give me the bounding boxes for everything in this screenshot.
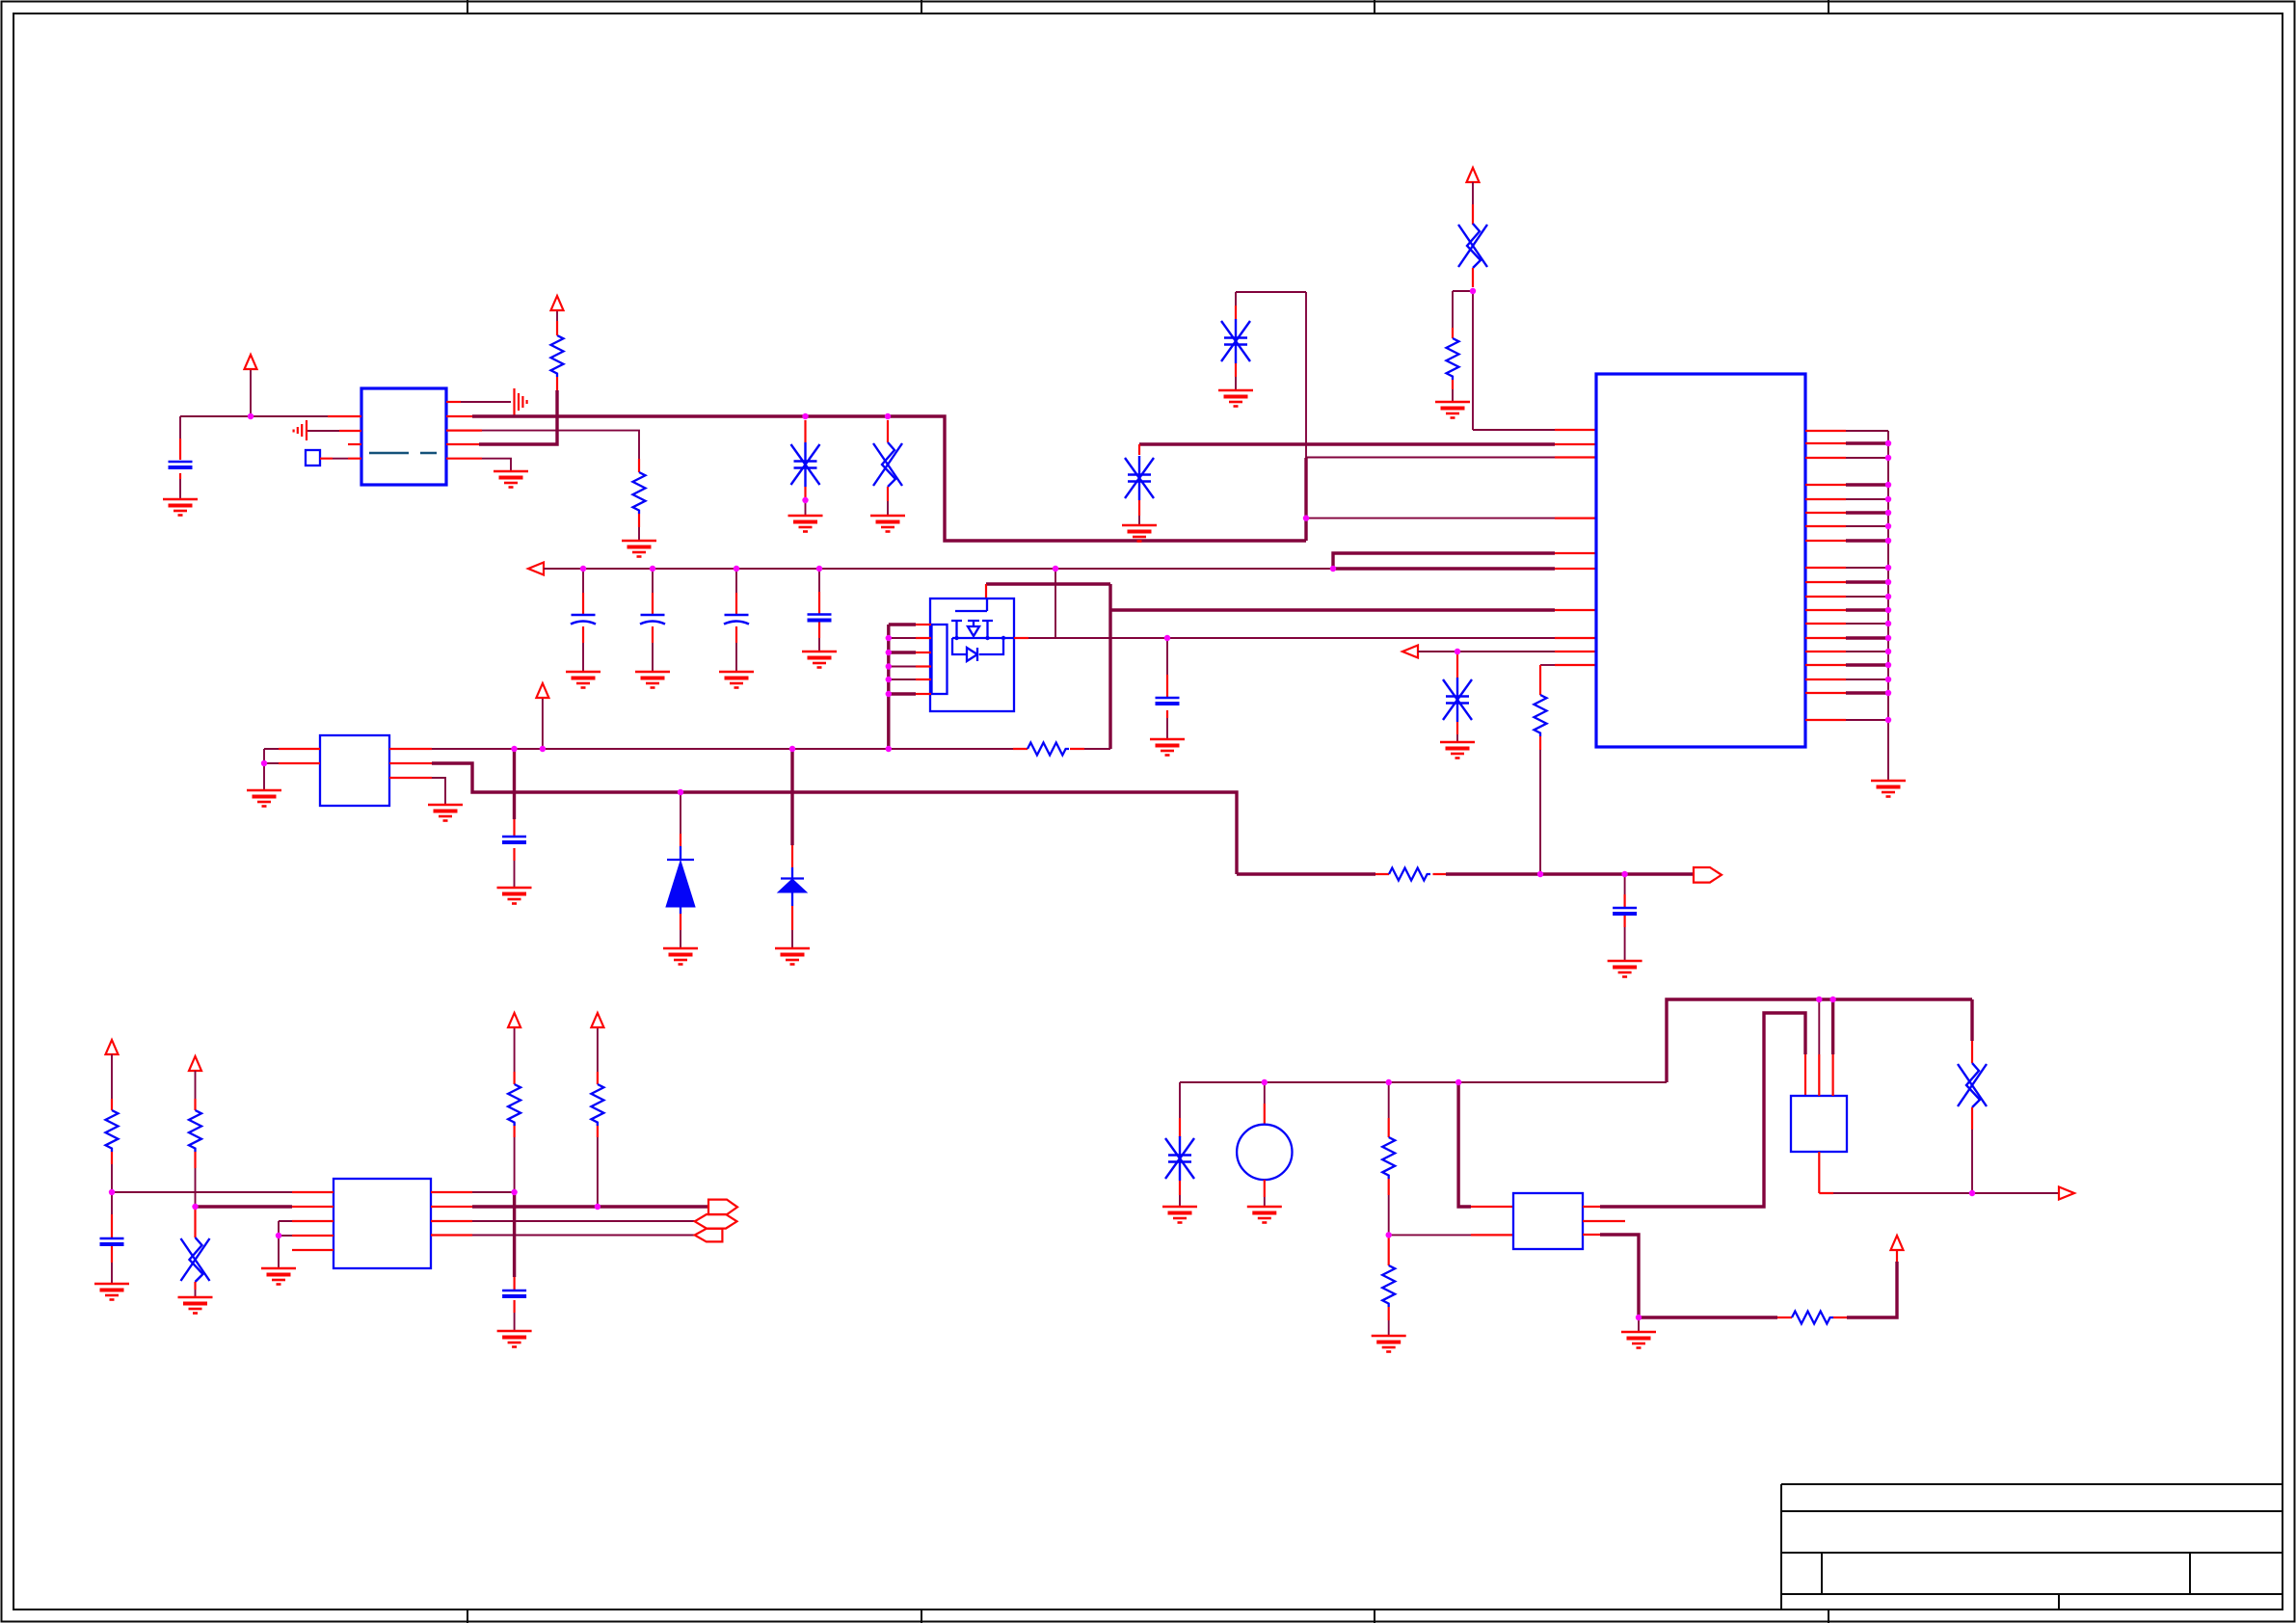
junction bus TVS1 <box>802 413 808 419</box>
wire U6 right pin 4 <box>1805 484 1846 486</box>
junction bus X1 <box>885 413 891 419</box>
wire TVS5 ground <box>1179 1181 1181 1195</box>
capacitor C9 <box>502 1290 526 1296</box>
wire U6 right pin 1 <box>1805 430 1846 432</box>
border tick marks <box>467 0 1829 1623</box>
ground GND-U4 <box>1621 1332 1656 1348</box>
wire oscillator stem <box>1264 1082 1266 1104</box>
IC U2 <box>320 735 389 806</box>
wire R11 riser <box>597 1027 599 1207</box>
wire U6 right pin 3 <box>1805 457 1846 459</box>
wire Q1 pin1 <box>889 623 916 625</box>
title block <box>1781 1484 2283 1610</box>
resistor R1 <box>551 335 564 377</box>
junction rail C4 <box>734 566 739 572</box>
wire X3 ground <box>194 1282 196 1290</box>
wire R9 to node <box>194 1152 196 1168</box>
junction net777 C7 <box>511 746 517 752</box>
crystal symbol X1 <box>873 442 902 487</box>
junction net1367 <box>1636 1315 1642 1320</box>
U1 internal label lines <box>369 452 437 455</box>
ground GND-TVS3 <box>1218 390 1253 407</box>
wire U6 right pin 15 <box>1805 651 1846 652</box>
wire R2 to ground <box>638 514 640 527</box>
wire X1 to ground <box>887 487 889 501</box>
wire cap stem <box>582 569 584 672</box>
ground GND-C9 <box>497 1331 532 1347</box>
power VCC P2 <box>551 296 564 310</box>
wire cap C5 stem <box>818 569 820 652</box>
wire R6 to gate riser <box>1084 748 1110 750</box>
junction U6 bus pin18 <box>1885 690 1891 696</box>
power VCC P3 <box>536 683 548 698</box>
resistor R9 <box>189 1110 201 1152</box>
wire U1 pin14 to R2 <box>446 430 482 432</box>
wire U1 pin13 to R1 pullup <box>446 443 479 445</box>
Q1 MOSFET symbol <box>955 599 987 611</box>
junction U3 gnd pins <box>276 1233 281 1238</box>
junction rail C3 <box>650 566 655 572</box>
junction Q1 pin5 <box>886 677 892 682</box>
wire TVS1 gnd stub <box>805 500 807 516</box>
capacitor C10 <box>1613 908 1637 914</box>
resistor R3 <box>1447 338 1459 380</box>
junction net907 C10 <box>1621 871 1627 877</box>
wire Q1 pin4 <box>889 666 916 668</box>
power VCC P4 <box>1467 168 1480 182</box>
wire D1 vertical <box>680 792 681 834</box>
wire divider to U4 pin2 <box>1389 1234 1471 1236</box>
power VCC P9 <box>1891 1236 1904 1250</box>
wire TVS2 ground <box>1456 722 1458 734</box>
wire R13 ground <box>1388 1307 1390 1320</box>
resistor R8 <box>106 1110 119 1152</box>
capacitor C1 <box>169 462 193 467</box>
wire net1367 to R14 <box>1639 1316 1777 1318</box>
resistor R10 <box>508 1084 521 1126</box>
ground GND-C7 <box>497 888 532 904</box>
IC U4 <box>1513 1193 1583 1249</box>
IC U6 <box>1596 374 1805 747</box>
wire Q1 pin5 <box>889 678 916 680</box>
wire net1252 to U3 <box>196 1205 293 1208</box>
wire TVS4 to U6 thick <box>1139 442 1555 445</box>
wire P5 to R8 <box>111 1054 113 1099</box>
ground GND-D1 <box>663 948 698 965</box>
wire D1 ground <box>680 914 681 930</box>
wire to C1 <box>179 416 181 499</box>
ground GND-U3L <box>261 1268 296 1285</box>
Q1 pin bracket <box>932 625 948 694</box>
capacitor C2 <box>571 615 596 625</box>
diode D2 <box>781 867 804 879</box>
wire R14 to VCC <box>1847 1262 1897 1317</box>
wire rail to Q1 drain <box>1055 569 1056 638</box>
wire net1237 to U3 <box>112 1191 292 1193</box>
wire R10 riser <box>514 1027 516 1192</box>
ground GND-X3 <box>178 1297 213 1314</box>
resistor R14 <box>1792 1312 1833 1324</box>
wire R12 to node <box>1388 1179 1390 1195</box>
wire node to U6 pin1 <box>1473 291 1555 430</box>
junction net1123 osc <box>1262 1079 1268 1085</box>
capacitor C4 <box>724 615 749 625</box>
wire riser lower thick <box>1304 458 1307 541</box>
net arrow left 3V3 rail <box>528 563 544 575</box>
crystal symbol X4 <box>1958 1063 1987 1107</box>
wire C6 stem <box>1166 638 1168 739</box>
junction U6 bus pin17 <box>1885 677 1891 682</box>
wire U5 pin2 top <box>1818 999 1820 1054</box>
wire U1 pin16 to chassis <box>446 401 461 403</box>
ground GND-C4 <box>719 672 754 688</box>
wire Q1 pin6 <box>889 692 916 695</box>
junction TVS1 ground <box>802 497 808 503</box>
junction U6 bus pin19 <box>1885 717 1891 723</box>
wire rail to U6 pins <box>1333 553 1555 569</box>
ground GND-Y1 <box>1247 1207 1282 1223</box>
junction divider <box>1386 1232 1392 1237</box>
wire to TVS1 <box>804 420 806 442</box>
wire U5 bottom pin to out <box>1819 1152 1833 1193</box>
wire Q1 gate feed <box>986 584 1110 749</box>
wire pinD <box>1306 518 1555 519</box>
junction Q1 pin6 <box>886 691 892 697</box>
wire to X1 <box>887 420 889 442</box>
junction net1237 <box>109 1189 115 1195</box>
junction U6 bus pin4 <box>1885 482 1891 488</box>
wire TVS5 stem <box>1179 1082 1181 1118</box>
junction U6 bus pin8 <box>1885 538 1891 544</box>
chassis ground left <box>294 420 307 440</box>
connector J1 small box <box>306 450 320 466</box>
wire U3 right pin4 <box>431 1234 472 1236</box>
wire pin1 down to C9 <box>513 1192 516 1277</box>
wire TVS1 to ground <box>804 487 806 498</box>
ground GND-C10 <box>1608 961 1642 977</box>
wire U6 right pin 18 <box>1805 692 1846 694</box>
capacitor C8 <box>100 1238 124 1244</box>
resistor R6 <box>1028 743 1069 756</box>
net arrow right OUT <box>2059 1187 2074 1200</box>
junction riser pinD <box>1303 515 1309 520</box>
junction pin1 R10 <box>511 1189 517 1195</box>
ground GND-U6 <box>1871 781 1906 797</box>
wire node to R13 <box>1388 1235 1390 1265</box>
ground GND-C3 <box>635 672 670 688</box>
wire Q1 drain out <box>1014 637 1028 639</box>
wire gnd stub <box>1638 1317 1640 1332</box>
ground GND-C1 <box>163 499 198 516</box>
junction net1252 <box>192 1204 198 1210</box>
wire J1 to U1 pin5 <box>320 458 361 460</box>
wire net907 <box>1237 872 1375 875</box>
wire node to C8 <box>111 1192 113 1214</box>
wire U6 right pin 13 <box>1805 623 1846 625</box>
wire out to arrow <box>1972 1192 2059 1194</box>
wire cap stem <box>735 569 737 672</box>
junction pin2 R11 <box>595 1204 601 1210</box>
crystal symbol X3 <box>181 1237 210 1282</box>
junction U6 bus pin13 <box>1885 621 1891 626</box>
ground GND-TVS2 <box>1440 742 1475 758</box>
wire U6 right pin 17 <box>1805 678 1846 680</box>
wire U1 pin12 to ground <box>446 458 482 460</box>
wire D2 ground <box>791 906 793 930</box>
resistor R7 <box>1389 868 1430 881</box>
junction Q1 pin4 <box>886 663 892 669</box>
transistor Q1 outer box <box>930 599 1014 711</box>
wire C10 stem <box>1624 874 1626 961</box>
wire thick bus U1 pin15 <box>446 415 472 417</box>
IC U3 <box>334 1179 431 1268</box>
wire bus to X4 <box>1970 999 1973 1041</box>
wire gate net to U6 <box>1110 608 1555 611</box>
wire chassis to U1 pin3 <box>307 430 339 432</box>
junction net777 Q1 <box>886 746 892 752</box>
wire R12 chain <box>1388 1082 1390 1118</box>
wire VCC stem <box>250 369 252 416</box>
wire riser to U6 pins <box>1306 292 1555 458</box>
junction U6 bus pin3 <box>1885 455 1891 461</box>
oscillator Y1 circle <box>1237 1125 1292 1180</box>
wire net907 east <box>1446 872 1694 875</box>
crystal symbol X2 <box>1458 224 1487 268</box>
ground GND-C5 <box>802 652 837 668</box>
junction U6 bus pin16 <box>1885 662 1891 668</box>
wire net1123 <box>1180 1081 1667 1083</box>
junction net1123 U4 <box>1455 1079 1461 1085</box>
wire TVS2 stem <box>1456 652 1458 678</box>
ground GND-U2R <box>428 805 463 821</box>
capacitor C3 <box>640 615 665 625</box>
net arrow left AVDD <box>1402 646 1418 658</box>
junction AVDD TVS <box>1455 649 1460 654</box>
wire U6 right pin 7 <box>1805 525 1846 527</box>
junction U6 bus pin11 <box>1885 594 1891 599</box>
junction net822 D1 <box>678 789 683 795</box>
resistor R13 <box>1382 1265 1395 1307</box>
resistor R6 leads <box>1013 748 1084 750</box>
wire R1 to VCC <box>556 321 558 335</box>
wire TVS3 ground <box>1235 363 1237 377</box>
wire X2 to node <box>1472 268 1474 287</box>
ground GND-C8 <box>94 1284 129 1300</box>
junction U6 bus pin2 <box>1885 440 1891 446</box>
capacitor C6 <box>1156 698 1180 704</box>
chassis ground right <box>515 388 527 415</box>
wire U6 right pin 5 <box>1805 498 1846 500</box>
wire VCC net to U1 pin2 <box>180 415 328 417</box>
resistor R12 <box>1382 1137 1395 1179</box>
junction U6 bus pin6 <box>1885 510 1891 516</box>
junction net1123 R12 <box>1386 1079 1392 1085</box>
wire U3 right pin1 <box>431 1191 472 1193</box>
wire U6 right bus <box>1887 431 1889 781</box>
wire U3 right pin3 <box>431 1220 472 1222</box>
ground GND-R2 <box>622 541 656 557</box>
port flag RX bidir <box>695 1214 737 1229</box>
power VCC P7 <box>508 1013 521 1027</box>
wire U3 left pins 3,4 <box>292 1221 334 1236</box>
junction bus U5b <box>1829 997 1835 1002</box>
wire VCC stem <box>542 698 544 749</box>
ground GND-R13 <box>1372 1336 1406 1352</box>
wire drain net <box>1028 637 1555 639</box>
junction rail C5 <box>816 566 822 572</box>
wire node to R3 <box>1453 291 1473 328</box>
ground GND-TVS4 <box>1122 525 1157 542</box>
wire U6 right pin 9 <box>1805 567 1846 569</box>
wire C7 stem <box>513 749 516 819</box>
wire R5 down to net907 <box>1539 736 1541 750</box>
wire D2 vertical <box>790 749 793 845</box>
junction rail drain <box>1053 566 1058 572</box>
ground GND-U1 <box>494 471 528 488</box>
diode D1 <box>667 846 694 861</box>
ground GND-C6 <box>1150 739 1185 756</box>
resistor R11 <box>591 1084 603 1126</box>
power VCC P8 <box>591 1013 603 1027</box>
power VCC P6 <box>189 1056 201 1071</box>
wire U6 right pin 8 <box>1805 540 1846 542</box>
transient suppressor TVS3 <box>1221 319 1250 363</box>
ground GND-TVS5 <box>1162 1207 1197 1223</box>
wire P6 to R9 <box>195 1071 197 1099</box>
wire U6 right pin 2 <box>1805 442 1846 444</box>
wire U6 right pin 14 <box>1805 637 1846 639</box>
junction rail U6 feed <box>1330 566 1336 572</box>
junction Q1 pin2 <box>886 635 892 641</box>
wire VCC to X2 <box>1472 182 1474 204</box>
wire U5 pin3 top <box>1831 999 1834 1054</box>
wire U6 right pin 6 <box>1805 512 1846 514</box>
wire U6 right pin 12 <box>1805 609 1846 611</box>
resistor R5 <box>1535 695 1547 736</box>
power VCC P1 <box>245 355 257 369</box>
wire C9 ground <box>514 1313 516 1331</box>
wire R8 to node <box>111 1152 113 1164</box>
junction net907 R5 <box>1537 871 1543 877</box>
wire U3 right pin2 <box>431 1206 472 1208</box>
wire U2 left pins to ground <box>279 749 320 763</box>
wire Q1 pin2 <box>889 637 916 639</box>
junction VCC node <box>248 413 254 419</box>
wire U6 right pin 10 <box>1805 581 1846 583</box>
junction U6 bus pin15 <box>1885 649 1891 654</box>
port flag TX right <box>708 1200 737 1215</box>
wire U6 right pin 16 <box>1805 664 1846 666</box>
junction U6 bus pin9 <box>1885 565 1891 571</box>
wire Q1 pin3 <box>889 651 916 653</box>
junction net777 VCC <box>540 746 546 752</box>
junction net777 D2 <box>789 746 795 752</box>
wire U2 pin3R to ground <box>389 777 432 779</box>
ground GND-R3 <box>1435 402 1470 418</box>
wire U4 pin1R to U5 <box>1583 1206 1600 1208</box>
junction U6 bus pin7 <box>1885 523 1891 529</box>
capacitor C7 <box>502 837 526 842</box>
wire 3V3 rail <box>544 568 1333 570</box>
wire TVS3 top branch <box>1236 292 1306 306</box>
wire C8 ground <box>111 1263 113 1284</box>
transient suppressor TVS4 <box>1125 456 1154 500</box>
transient suppressor TVS1 <box>791 442 820 487</box>
wire U4 pin2R no-connect <box>1583 1220 1625 1222</box>
wire net777 <box>389 748 432 750</box>
ground GND-TVS1 <box>788 516 823 532</box>
wire TVS4 ground <box>1138 500 1140 516</box>
wire node to X3 <box>194 1207 196 1237</box>
wire net822 <box>389 762 432 764</box>
wire U4 pin3R to gnd node <box>1583 1234 1600 1236</box>
ground GND-X1 <box>870 516 905 532</box>
transient suppressor TVS5 <box>1165 1136 1194 1181</box>
junction Q1 pin3 <box>886 650 892 655</box>
IC U1 <box>361 388 446 485</box>
port flag EN left <box>695 1229 723 1242</box>
junction X2 node <box>1470 288 1476 294</box>
wire Q1 pin bus vertical <box>887 625 890 749</box>
resistor R2 <box>633 472 646 514</box>
junction bus U5a <box>1816 997 1822 1002</box>
wire U6 right pin 19 <box>1805 719 1846 721</box>
IC U5 <box>1791 1096 1847 1152</box>
capacitor C5 <box>808 615 832 621</box>
junction drain C6 <box>1164 635 1170 641</box>
port flag VOUT right <box>1694 867 1722 883</box>
junction rail C2 <box>580 566 586 572</box>
wire X4 to out node <box>1971 1107 1973 1130</box>
wire U6 pin to R5 <box>1540 664 1555 666</box>
power VCC P5 <box>106 1040 119 1054</box>
junction U2 gnd pins <box>261 760 267 766</box>
wire U3 pin5 no-connect <box>292 1249 334 1251</box>
wire to U4 pin1 <box>1458 1082 1471 1207</box>
junction U6 bus pin14 <box>1885 635 1891 641</box>
ground GND-U2L <box>247 790 281 807</box>
ground GND-C2 <box>566 672 601 688</box>
wire R3 ground <box>1452 380 1454 389</box>
ground GND-D2 <box>775 948 810 965</box>
wire U6 right pin 11 <box>1805 596 1846 598</box>
junction U6 bus pin10 <box>1885 579 1891 585</box>
wire cap stem <box>652 569 654 672</box>
junction U6 bus pin5 <box>1885 496 1891 502</box>
junction U6 bus pin12 <box>1885 607 1891 613</box>
U1 pin4 no-connect stub <box>348 443 361 445</box>
junction out node <box>1969 1190 1975 1196</box>
wire oscillator ground <box>1264 1180 1266 1197</box>
wire AVDD net <box>1418 651 1555 652</box>
transient suppressor TVS2 <box>1443 678 1472 722</box>
